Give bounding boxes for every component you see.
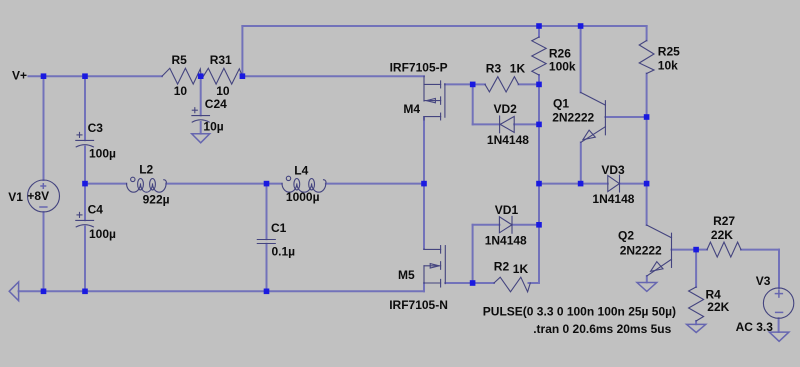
junction bottom rail C4 bbox=[82, 289, 88, 295]
junction L4 / C1 bbox=[264, 181, 270, 187]
resistor R31 bbox=[203, 68, 242, 84]
wire R4 bottom lead bbox=[695, 321, 697, 324]
wire L2 left bbox=[85, 183, 126, 185]
svg-text:R3: R3 bbox=[486, 62, 502, 76]
resistor R26 bbox=[532, 37, 546, 75]
svg-text:.tran 0 20.6ms 20ms 5us: .tran 0 20.6ms 20ms 5us bbox=[533, 322, 671, 336]
junction top rail R26 bbox=[536, 23, 542, 29]
wire VD1 cathode lead bbox=[512, 224, 539, 226]
junction M4 drain / M5 drain bbox=[421, 181, 427, 187]
svg-text:2N2222: 2N2222 bbox=[552, 110, 594, 124]
junction Q2 base / R27 / R4 bbox=[693, 247, 699, 253]
svg-text:M4: M4 bbox=[403, 102, 420, 116]
junction R31 / top rail riser bbox=[240, 73, 246, 79]
wire R25 top lead bbox=[646, 26, 648, 41]
wire Q2 emitter tail bbox=[646, 276, 648, 282]
wire V3 to ground bbox=[778, 318, 780, 332]
inductor L4 bbox=[282, 176, 326, 192]
svg-text:VD1: VD1 bbox=[495, 203, 519, 217]
capacitor C24 bbox=[192, 108, 210, 122]
wire R4 top lead bbox=[695, 250, 697, 287]
svg-text:100k: 100k bbox=[549, 59, 576, 73]
wire L2 to L4 bbox=[166, 183, 281, 185]
svg-text:VD2: VD2 bbox=[494, 102, 518, 116]
wire VD2 anode lead bbox=[514, 123, 539, 125]
resistor R5 bbox=[162, 68, 201, 84]
svg-text:2N2222: 2N2222 bbox=[620, 243, 662, 257]
svg-text:V3: V3 bbox=[756, 274, 771, 288]
wire R2 left lead bbox=[473, 282, 494, 284]
wire V1 bottom bbox=[43, 212, 45, 291]
ground at Q2 emitter bbox=[637, 283, 657, 292]
resistor R27 bbox=[707, 242, 741, 257]
svg-text:22K: 22K bbox=[707, 300, 729, 314]
svg-text:M5: M5 bbox=[398, 268, 415, 282]
junction R2 / VD1 / M5 gate bbox=[470, 280, 476, 286]
svg-text:1N4148: 1N4148 bbox=[592, 192, 634, 206]
wire M5 source to rail bbox=[423, 283, 425, 291]
svg-text:PULSE(0 3.3 0 100n 100n 25µ 50: PULSE(0 3.3 0 100n 100n 25µ 50µ) bbox=[483, 304, 676, 318]
svg-text:AC 3.3: AC 3.3 bbox=[736, 320, 774, 334]
wire M4 gate to R3 bbox=[445, 83, 473, 85]
svg-text:C4: C4 bbox=[88, 203, 104, 217]
mosfet M4 IRF7105-P bbox=[424, 76, 445, 120]
wire mid column to VD3 anode bbox=[539, 183, 608, 185]
transistor Q1 2N2222 bbox=[581, 92, 606, 142]
wire VD2 cathode lead bbox=[473, 123, 500, 125]
wire R27 to V3 bbox=[778, 250, 780, 288]
junction V+ / C3 bbox=[82, 73, 88, 79]
wire M5 drain from node bbox=[423, 184, 425, 249]
svg-text:V1: V1 bbox=[8, 190, 23, 204]
junction VD3 cathode / R25 column bbox=[644, 181, 650, 187]
wire R27 right lead bbox=[741, 249, 779, 251]
capacitor C4 bbox=[76, 212, 94, 227]
svg-text:1N4148: 1N4148 bbox=[487, 133, 529, 147]
ground at C24 bbox=[192, 134, 210, 143]
svg-text:IRF7105-P: IRF7105-P bbox=[390, 61, 448, 75]
capacitor C1 bbox=[257, 240, 275, 244]
wire C4 bottom lead bbox=[84, 227, 86, 292]
junction R3 / R26 bottom bbox=[536, 82, 542, 88]
diode VD3 1N4148 bbox=[608, 175, 620, 192]
voltage source V1 bbox=[28, 180, 60, 212]
wire R26 top lead bbox=[538, 26, 540, 37]
junction Q1 base / R25 bbox=[644, 114, 650, 120]
ground at R4 bbox=[687, 324, 706, 332]
svg-text:+8V: +8V bbox=[27, 189, 49, 203]
resistor R2 bbox=[494, 277, 530, 292]
transistor Q2 2N2222 bbox=[647, 225, 672, 276]
wire Q1 collector bbox=[580, 26, 582, 92]
wire V+ row left bbox=[29, 75, 163, 77]
junction bottom rail C1 bbox=[264, 289, 270, 295]
wire C24 top lead bbox=[200, 76, 202, 115]
svg-text:1K: 1K bbox=[510, 62, 526, 76]
svg-text:R27: R27 bbox=[713, 214, 735, 228]
resistor R25 bbox=[639, 41, 654, 74]
voltage source V3 bbox=[763, 288, 793, 318]
wire Q2 collector bbox=[646, 184, 648, 225]
wire R27 left lead bbox=[696, 249, 707, 251]
wire C4 top lead bbox=[84, 184, 86, 221]
svg-text:10: 10 bbox=[216, 84, 230, 98]
svg-text:L2: L2 bbox=[139, 163, 153, 177]
svg-text:C3: C3 bbox=[88, 121, 104, 135]
wire R2 right lead bbox=[529, 282, 540, 284]
capacitor C3 bbox=[76, 132, 94, 147]
junction V+ / V1 bbox=[41, 73, 47, 79]
svg-text:C1: C1 bbox=[271, 221, 287, 235]
svg-text:VD3: VD3 bbox=[601, 163, 625, 177]
svg-text:100µ: 100µ bbox=[89, 227, 116, 241]
junction top rail Q1 collector bbox=[578, 23, 584, 29]
wire R3 right lead bbox=[519, 83, 540, 85]
ground at V3 bbox=[769, 332, 789, 341]
wire R3 left lead bbox=[473, 83, 485, 85]
junction Q1 emitter / output row bbox=[578, 181, 584, 187]
svg-text:V+: V+ bbox=[12, 69, 27, 83]
wire C24 bottom lead bbox=[200, 122, 202, 134]
svg-text:C24: C24 bbox=[205, 97, 227, 111]
wire Q2 base bbox=[672, 249, 697, 251]
diode VD1 1N4148 bbox=[499, 216, 512, 233]
junction R5/R31/C24 bbox=[198, 73, 204, 79]
wire C3 bottom lead bbox=[84, 147, 86, 184]
wire top rail bbox=[242, 25, 646, 27]
wire R25 bottom lead bbox=[646, 74, 648, 118]
wire M4 drain to node bbox=[423, 117, 425, 184]
svg-text:1N4148: 1N4148 bbox=[485, 233, 527, 247]
svg-text:0.1µ: 0.1µ bbox=[272, 245, 296, 259]
svg-text:R31: R31 bbox=[210, 53, 232, 67]
inductor L2 bbox=[127, 177, 167, 192]
svg-text:1K: 1K bbox=[513, 262, 529, 276]
wire V1 top bbox=[43, 76, 45, 180]
wire R26 bottom lead bbox=[538, 75, 540, 84]
wire C3 top lead bbox=[84, 76, 86, 140]
svg-text:Q1: Q1 bbox=[553, 96, 569, 110]
wire VD1 anode lead bbox=[473, 224, 500, 226]
wire C1 top lead bbox=[266, 184, 268, 240]
wire VD2 left drop bbox=[472, 84, 474, 124]
resistor R3 bbox=[485, 77, 519, 92]
junction VD1 cathode / mid column bbox=[536, 222, 542, 228]
wire R31 to M4 source bbox=[242, 75, 424, 77]
junction bottom rail V1 bbox=[41, 289, 47, 295]
svg-text:922µ: 922µ bbox=[143, 192, 170, 206]
wire mid column x539 bbox=[538, 84, 540, 283]
svg-text:10k: 10k bbox=[658, 58, 678, 72]
svg-text:R5: R5 bbox=[172, 53, 188, 67]
svg-text:L4: L4 bbox=[294, 164, 308, 178]
wire C1 bottom lead bbox=[266, 244, 268, 291]
svg-text:10: 10 bbox=[174, 84, 188, 98]
ground left arrow at bottom rail bbox=[9, 282, 18, 301]
svg-text:1000µ: 1000µ bbox=[286, 190, 320, 204]
svg-text:22K: 22K bbox=[711, 228, 733, 242]
resistor R4 bbox=[689, 287, 704, 321]
wire Q1 base bbox=[605, 116, 646, 118]
wire bottom rail bbox=[19, 290, 424, 292]
wire L4 to M4/M5 drain node bbox=[326, 183, 424, 185]
svg-text:Q2: Q2 bbox=[618, 229, 634, 243]
junction M4 gate / R3 / VD2 bbox=[470, 82, 476, 88]
diode VD2 1N4148 bbox=[500, 116, 515, 133]
wire VD3 cathode to R25 column bbox=[619, 183, 646, 185]
wire M5 gate to R2 bbox=[445, 282, 472, 284]
svg-text:100µ: 100µ bbox=[89, 146, 116, 160]
junction VD2 anode / mid column bbox=[536, 122, 542, 128]
mosfet M5 IRF7105-N bbox=[424, 246, 445, 287]
svg-text:R25: R25 bbox=[658, 45, 680, 59]
svg-text:IRF7105-N: IRF7105-N bbox=[389, 298, 448, 312]
wire R25 column to VD3 row bbox=[646, 117, 648, 184]
wire Q1 emitter bbox=[580, 142, 582, 183]
svg-text:R2: R2 bbox=[494, 260, 510, 274]
junction mid column / output row bbox=[536, 181, 542, 187]
wire riser to top rail bbox=[241, 26, 243, 76]
svg-text:10µ: 10µ bbox=[203, 120, 223, 134]
junction C3/C4/L2 bbox=[82, 181, 88, 187]
wire VD1 anode drop bbox=[472, 225, 474, 283]
